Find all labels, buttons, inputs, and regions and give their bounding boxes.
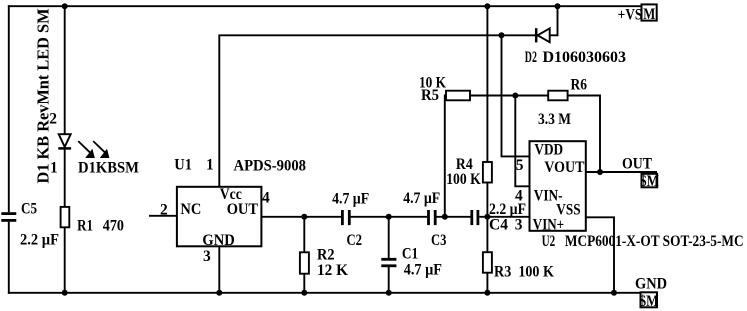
wire R5 to R6 (470, 95, 548, 97)
svg-text:R5: R5 (421, 87, 439, 104)
wire R2 top (303, 217, 305, 253)
svg-text:4: 4 (262, 189, 270, 206)
resistor R1 (61, 207, 70, 227)
LED D1 emission arrow 1 (78, 141, 95, 158)
svg-text:U1: U1 (174, 157, 192, 174)
wire U1 OUT to C2 (261, 216, 341, 218)
svg-text:R6: R6 (571, 77, 588, 94)
svg-text:OUT: OUT (622, 155, 653, 172)
svg-text:$M: $M (640, 173, 659, 190)
svg-text:VIN+: VIN+ (533, 216, 564, 233)
svg-text:R1: R1 (77, 217, 93, 234)
wire U2 VSS to bottom rail (586, 217, 614, 292)
svg-text:C2: C2 (347, 232, 363, 249)
svg-text:100 K: 100 K (446, 171, 481, 188)
capacitor C5 (1, 214, 16, 221)
svg-text:APDS-9008: APDS-9008 (234, 157, 307, 174)
svg-text:4.7 µF: 4.7 µF (403, 190, 440, 207)
IC U1 APDS-9008 box (177, 187, 262, 247)
wire R3 bottom to rail (486, 273, 488, 293)
svg-text:OUT: OUT (227, 201, 259, 218)
svg-text:D1 KB RevMnt LED SM: D1 KB RevMnt LED SM (34, 8, 53, 183)
junction dot C1 bottom rail (386, 290, 392, 296)
svg-text:C3: C3 (431, 232, 447, 249)
junction dot C1 signal node (386, 214, 392, 220)
svg-text:2.2 µF: 2.2 µF (20, 232, 59, 249)
svg-text:C4: C4 (489, 216, 508, 233)
svg-text:VDD: VDD (534, 141, 563, 158)
junction dot R2 bottom rail (301, 290, 307, 296)
svg-text:4.7 µF: 4.7 µF (332, 191, 369, 208)
wire D2 anode to top rail (550, 6, 558, 35)
capacitor C1 (381, 259, 396, 266)
wire R4 top from rail (486, 6, 488, 162)
wire left rail upper to C5 (8, 5, 10, 212)
resistor R3 (483, 252, 492, 273)
wire R4 bottom to signal node (486, 183, 488, 217)
svg-text:M: M (643, 6, 655, 23)
svg-text:C1: C1 (402, 246, 418, 263)
svg-text:4.7 µF: 4.7 µF (404, 262, 442, 279)
svg-text:D106030603: D106030603 (543, 49, 627, 66)
svg-text:5: 5 (516, 157, 524, 174)
wire C1 top (388, 217, 390, 258)
wire inverting node down to U2 VIN- pin 4 (515, 96, 529, 187)
junction dot VSS bottom rail (611, 290, 617, 296)
wire D1 anode from top rail (64, 6, 66, 134)
svg-text:2: 2 (160, 202, 168, 219)
diode D2 (536, 28, 550, 42)
wire C4 to U2 VIN+ pin 3 (479, 216, 529, 218)
junction dot D2 top rail (555, 3, 561, 9)
svg-text:+VS: +VS (618, 6, 642, 23)
wire Vcc horizontal to D2 cathode (218, 34, 535, 36)
node GND flag box (641, 292, 658, 307)
svg-text:4: 4 (515, 188, 523, 205)
wire R3 top (486, 217, 488, 252)
svg-text:GND: GND (202, 232, 234, 249)
capacitor C3 (429, 210, 436, 225)
junction dot R2 signal node (301, 214, 307, 220)
wire U2 VOUT to OUT flag (586, 171, 657, 173)
resistor R5 (446, 91, 470, 101)
svg-text:3: 3 (515, 216, 523, 233)
svg-text:GND: GND (635, 276, 667, 293)
svg-text:VOUT: VOUT (544, 159, 585, 176)
junction dot U1 GND bottom rail (216, 290, 222, 296)
svg-text:U2: U2 (542, 233, 556, 250)
svg-text:470: 470 (103, 217, 124, 234)
wire C3 to C4 (437, 216, 471, 218)
node +VS flag box (642, 4, 657, 20)
capacitor C4 (472, 210, 478, 225)
wire C1 bottom to rail (388, 267, 390, 293)
capacitor C2 (342, 210, 349, 225)
svg-text:12 K: 12 K (317, 262, 348, 279)
resistor R6 (548, 91, 567, 101)
wire left rail lower from C5 to bottom rail (8, 222, 10, 294)
wire U1 GND pin 3 to bottom rail (218, 246, 220, 292)
wire R2 bottom to rail (303, 274, 305, 293)
svg-text:$M: $M (640, 293, 659, 310)
svg-text:R3 100 K: R3 100 K (494, 264, 554, 281)
svg-text:MCP6001-X-OT SOT-23-5-MC: MCP6001-X-OT SOT-23-5-MC (565, 233, 744, 250)
junction dot R5-R6 VIN- branch (512, 93, 518, 99)
resistor R4 (483, 162, 492, 183)
svg-text:D1KBSM: D1KBSM (78, 159, 139, 176)
wire R1 to bottom rail (64, 227, 66, 293)
wire D2 cathode down to U2 VDD pin 5 (502, 35, 530, 156)
resistor R2 (300, 252, 309, 273)
svg-text:3: 3 (203, 248, 211, 265)
junction dot R4 top rail (484, 3, 490, 9)
junction dot D1 bottom rail (62, 290, 68, 296)
wire C2 to C3 (351, 216, 428, 218)
svg-text:NC: NC (180, 201, 201, 218)
junction dot D1 top rail (62, 3, 68, 9)
wire bottom GND rail (8, 292, 641, 294)
svg-text:1: 1 (206, 157, 214, 174)
svg-text:C5: C5 (21, 201, 37, 218)
wire D1 cathode to R1 (64, 148, 66, 207)
junction dot R3 bottom rail (484, 290, 490, 296)
junction dot R4-R3 signal node (484, 214, 490, 220)
svg-text:R2: R2 (317, 246, 335, 263)
wire U1 Vcc pin 1 vertical (218, 35, 220, 187)
wire top +VS rail (8, 5, 642, 7)
wire U1 NC pin 2 stub (149, 215, 177, 217)
junction dot VOUT R6 feedback (597, 169, 603, 175)
wire R6 right to VOUT node (568, 96, 600, 173)
wire R5 left leg down to signal node (445, 96, 446, 217)
svg-text:D2: D2 (525, 49, 537, 66)
junction dot D2 cathode VDD branch (499, 32, 505, 38)
node OUT flag box (642, 174, 658, 188)
svg-text:3.3 M: 3.3 M (538, 111, 571, 128)
LED D1 emission arrow 2 (93, 141, 109, 158)
op-amp U2 MCP6001 box (530, 141, 586, 231)
LED D1 (58, 134, 71, 148)
junction dot R5 signal node (442, 214, 448, 220)
